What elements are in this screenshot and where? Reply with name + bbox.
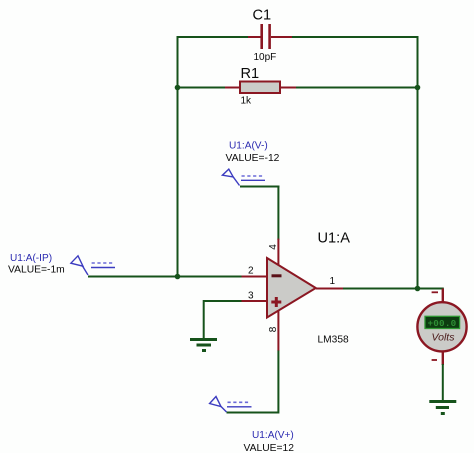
voltmeter plus lead (442, 289, 444, 304)
capacitor C1 (248, 8, 292, 64)
ground left (190, 340, 217, 351)
svg-text:U1:A(-IP): U1:A(-IP) (10, 253, 52, 264)
svg-text:R1: R1 (241, 66, 260, 82)
svg-text:VALUE=-1m: VALUE=-1m (8, 265, 65, 276)
op-amp plus input mark (271, 301, 281, 304)
wire top rail left segment (to C1) (177, 36, 251, 38)
ground right (429, 402, 456, 414)
wire output to meter (418, 288, 444, 290)
op-amp U1 pin 4 stub (277, 239, 279, 268)
wire -IP to pin 2 (88, 276, 242, 278)
wire top rail right segment (from C1) (291, 36, 419, 38)
svg-text:U1:A(V-): U1:A(V-) (229, 141, 268, 152)
junction pin2 node (175, 274, 181, 280)
junction output node (415, 286, 421, 292)
wire left rail vertical (177, 36, 179, 277)
op-amp minus input mark (272, 274, 282, 277)
op-amp pin 1 output stub (316, 288, 343, 290)
voltmeter LCD (425, 316, 460, 328)
svg-text:Volts: Volts (432, 332, 456, 344)
probe U1:A(V-) (222, 141, 279, 186)
junction R1 left (175, 85, 181, 91)
svg-text:LM358: LM358 (318, 335, 349, 346)
probe U1:A(V+) (210, 397, 295, 453)
junction R1 right (415, 85, 421, 91)
svg-text:U1:A(V+): U1:A(V+) (252, 430, 294, 441)
wire R1 row right segment (295, 87, 418, 89)
wire pin 8 to V+ (227, 351, 279, 413)
svg-text:2: 2 (248, 266, 254, 277)
op-amp U1 pin 3 stub (242, 300, 268, 302)
svg-text:VALUE=12: VALUE=12 (244, 443, 295, 453)
voltmeter minus lead (442, 351, 444, 365)
voltmeter body (417, 302, 466, 351)
op-amp U1:A triangle (267, 258, 316, 318)
probe U1:A(-IP) (8, 253, 115, 276)
wire pin 3 net (204, 301, 242, 339)
svg-text:1k: 1k (241, 96, 253, 107)
wire R1 row left segment (178, 87, 227, 89)
wire output to right rail (343, 288, 418, 290)
svg-text:1: 1 (330, 276, 336, 287)
voltmeter bottom polarity mark (432, 359, 437, 361)
wire right rail vertical (417, 36, 419, 289)
svg-text:+00.0: +00.0 (428, 318, 457, 329)
svg-text:VALUE=-12: VALUE=-12 (226, 153, 280, 164)
svg-text:8: 8 (268, 326, 279, 332)
svg-text:3: 3 (248, 291, 254, 302)
resistor R1 (225, 66, 296, 107)
svg-text:4: 4 (268, 244, 279, 250)
svg-text:C1: C1 (253, 8, 272, 24)
op-amp U1 pin 8 stub (277, 305, 279, 351)
op-amp U1 pin 2 stub (242, 276, 268, 278)
wire meter to ground (442, 364, 444, 401)
voltmeter top polarity mark (432, 291, 438, 293)
wire V- vertical to pin 4 (277, 186, 279, 241)
svg-text:10pF: 10pF (254, 52, 277, 63)
svg-text:U1:A: U1:A (318, 231, 351, 247)
wire V- horizontal (240, 186, 279, 188)
